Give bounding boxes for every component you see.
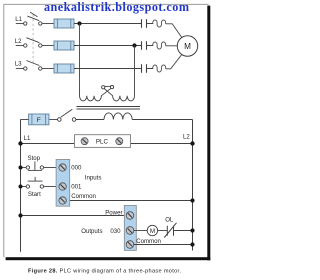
PLC output terminal strip (124, 205, 136, 250)
svg-text:M: M (184, 42, 191, 51)
node junction L2 tap (132, 43, 136, 47)
wire secondary left lead (76, 119, 104, 121)
fuse FU2 (54, 41, 74, 50)
terminal screw input common (59, 197, 66, 204)
contactor contact M2 (142, 41, 147, 50)
svg-text:030: 030 (110, 228, 121, 235)
terminal screw 001 (59, 183, 66, 190)
node junction start on rail (19, 185, 23, 189)
wire L2 to fuse (42, 45, 54, 47)
node junction L1 tap (77, 21, 81, 25)
wire right rail (192, 120, 194, 251)
wire secondary right lead (132, 119, 192, 121)
pushbutton Stop (NC) (21, 155, 60, 170)
motor M (177, 36, 197, 56)
wire switch to fuse F (49, 119, 58, 121)
svg-text:F: F (37, 117, 41, 124)
wire control bus L1 to L2 (21, 143, 193, 145)
terminal screw PLC left (81, 138, 88, 145)
svg-text:Outputs: Outputs (81, 228, 102, 235)
terminal screw output common (126, 241, 134, 249)
contactor contact M1 (142, 19, 147, 28)
wire 030 to coil M (134, 230, 148, 232)
overload heater OL1 (147, 20, 182, 37)
node junction right rail bus (190, 141, 194, 145)
svg-text:Figure 28. PLC wiring diagram: Figure 28. PLC wiring diagram of a three… (28, 268, 181, 274)
wire tap to transformer primary left (79, 24, 81, 97)
svg-text:001: 001 (71, 184, 82, 191)
fuse on primary (crossed link) (102, 86, 114, 89)
wire power from left rail to output strip (21, 215, 127, 217)
terminal screw PLC right (116, 138, 123, 145)
svg-text:Power: Power (105, 209, 122, 216)
svg-text:L3: L3 (15, 61, 22, 68)
transformer T1 secondary winding (104, 113, 132, 120)
svg-text:M: M (150, 228, 155, 235)
dashed mechanical linkage of 3-pole disconnect (32, 15, 34, 66)
fuse F (29, 114, 49, 125)
svg-text:Start: Start (28, 191, 41, 198)
overload contact OL (NC) (164, 223, 176, 238)
wire OL to right rail (174, 230, 193, 232)
svg-text:Inputs: Inputs (85, 174, 102, 181)
disconnect switch pole 1 (24, 12, 42, 25)
wire tap to transformer primary right (134, 46, 136, 97)
wire L1 lead-in (16, 23, 24, 25)
wire coil M to OL contact (158, 230, 168, 232)
wire L3 lead-in (16, 68, 24, 70)
svg-text:anekalistrik.blogspot.com: anekalistrik.blogspot.com (44, 0, 189, 14)
fuse FU1 (54, 19, 74, 28)
disconnect switch pole 3 (24, 61, 42, 71)
contactor contact M3 (142, 64, 147, 73)
terminal screw 000 (59, 164, 66, 171)
node junction power on left rail (18, 213, 22, 217)
node junction input common on right rail (190, 198, 194, 202)
overload heater OL3 (147, 55, 182, 72)
svg-text:Common: Common (71, 193, 96, 200)
wire fuse F to left rail (21, 119, 29, 121)
terminal screw 030 (126, 227, 134, 235)
pushbutton Start (NO) (21, 177, 60, 198)
svg-text:L1: L1 (15, 16, 22, 23)
control switch S1 (58, 109, 76, 121)
wire input common to right rail (64, 200, 193, 202)
fuse FU3 (54, 64, 74, 73)
svg-text:OL: OL (165, 216, 174, 223)
wire L1 to fuse (42, 23, 54, 25)
wire output common to right rail (134, 244, 193, 246)
svg-text:L2: L2 (183, 134, 190, 141)
wire fuse to contact M3 (74, 68, 142, 70)
wire L3 to fuse (42, 68, 54, 70)
svg-text:PLC: PLC (96, 139, 109, 146)
svg-text:L2: L2 (15, 38, 22, 45)
coil M motor starter (147, 225, 157, 235)
transformer T1 primary winding (80, 88, 112, 101)
disconnect switch pole 2 (24, 38, 42, 48)
wire fuse to contact M1 (74, 23, 142, 25)
PLC input terminal strip (56, 159, 70, 206)
wire fuse to contact M2 (74, 45, 142, 47)
border frame (0, 0, 214, 280)
overload heater OL2 (147, 42, 178, 49)
wire L2 lead-in (16, 45, 24, 47)
svg-text:Stop: Stop (28, 155, 41, 162)
wire left rail (20, 120, 22, 252)
node junction output common on right rail (190, 242, 194, 246)
svg-text:L1: L1 (24, 135, 31, 142)
transformer core (77, 107, 141, 110)
node junction left rail bus (18, 141, 22, 145)
node junction stop on rail (19, 166, 23, 170)
terminal screw power (126, 212, 134, 220)
PLC power terminals box (75, 135, 131, 148)
node junction OL on right rail (190, 228, 194, 232)
svg-text:000: 000 (71, 165, 82, 172)
